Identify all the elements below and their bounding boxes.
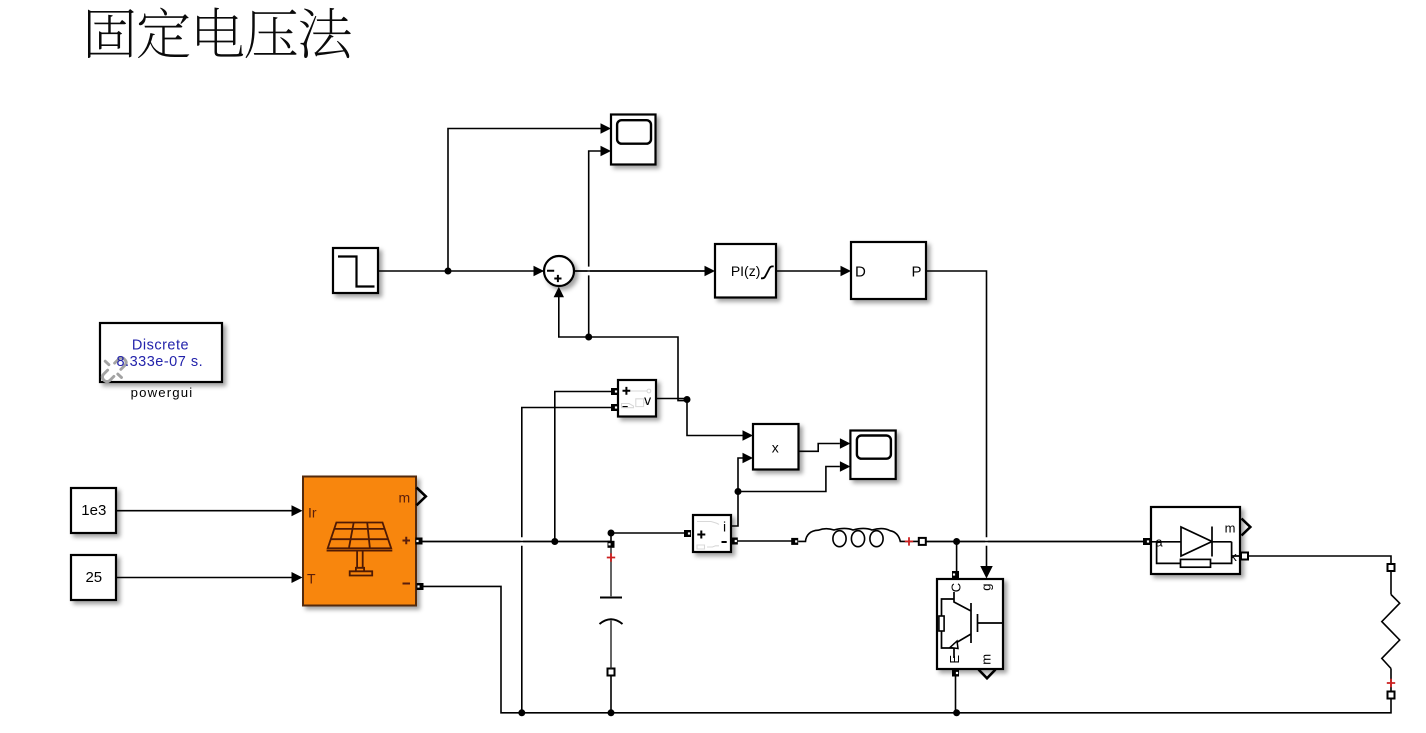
svg-text:1e3: 1e3 xyxy=(81,502,106,519)
svg-text:C: C xyxy=(949,583,964,592)
svg-text:i: i xyxy=(723,519,726,535)
svg-text:PI(z): PI(z) xyxy=(731,263,761,279)
svg-text:x: x xyxy=(772,439,779,455)
svg-text:m: m xyxy=(398,489,410,505)
svg-text:v: v xyxy=(644,392,651,408)
svg-text:P: P xyxy=(912,264,922,281)
svg-text:E: E xyxy=(947,655,962,664)
svg-text:Ir: Ir xyxy=(308,504,317,520)
svg-text:m: m xyxy=(1225,521,1236,536)
svg-text:8.333e-07 s.: 8.333e-07 s. xyxy=(116,354,203,370)
svg-text:g: g xyxy=(979,584,994,591)
svg-text:m: m xyxy=(979,654,994,665)
svg-text:25: 25 xyxy=(85,569,102,586)
svg-text:T: T xyxy=(307,571,316,587)
svg-text:a: a xyxy=(1155,535,1163,550)
svg-text:Discrete: Discrete xyxy=(132,338,189,354)
svg-text:k: k xyxy=(1230,549,1237,564)
svg-text:powergui: powergui xyxy=(131,385,194,400)
svg-text:D: D xyxy=(855,264,866,281)
